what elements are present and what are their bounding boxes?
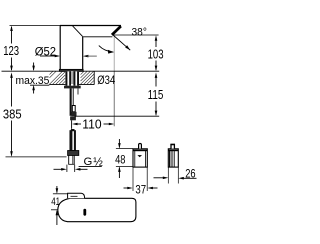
sensor window slanted edge xyxy=(112,26,121,35)
dimension 110 line xyxy=(72,123,114,126)
svg-text:37: 37 xyxy=(135,184,146,197)
deck hatch right part xyxy=(81,71,94,84)
faucet column right edge xyxy=(82,37,84,71)
pipe thin continuation xyxy=(71,120,73,129)
supply hose xyxy=(70,129,75,151)
angle 38 arc xyxy=(99,46,114,53)
pipe end below extension xyxy=(70,116,76,120)
dimension 103 line xyxy=(155,35,158,71)
spout module side view capsule xyxy=(58,198,136,221)
hose end nut xyxy=(68,151,79,156)
svg-text:115: 115 xyxy=(148,87,164,102)
control box front view xyxy=(133,144,147,168)
hose end extension line xyxy=(6,156,67,158)
angle 38 leg line xyxy=(113,35,131,51)
shank bottom extension line xyxy=(75,115,160,117)
svg-text:Ø52: Ø52 xyxy=(35,45,56,58)
control box side view xyxy=(168,144,178,167)
svg-text:Ø34: Ø34 xyxy=(97,73,115,87)
faucet base plate xyxy=(59,69,83,71)
svg-text:G: G xyxy=(84,156,93,168)
spout block inner line xyxy=(71,195,78,197)
threaded pipe below nut xyxy=(70,88,72,115)
angle 38 arc arrowhead xyxy=(108,50,114,54)
svg-text:½: ½ xyxy=(93,156,103,168)
svg-text:385: 385 xyxy=(3,107,22,122)
svg-text:123: 123 xyxy=(3,43,19,58)
deck hatch left part xyxy=(50,71,66,84)
dimension 37 xyxy=(124,187,158,190)
faucet head bottom edge xyxy=(83,36,113,38)
svg-text:103: 103 xyxy=(148,47,164,62)
dimension 123 line xyxy=(10,26,13,72)
dimension 385 line xyxy=(10,72,13,156)
G half thread tube xyxy=(68,156,74,165)
threaded shank through deck xyxy=(65,71,79,85)
angle 38 extension line xyxy=(112,34,158,36)
dimension 48 xyxy=(116,139,133,178)
control box front extension lines xyxy=(132,167,134,191)
svg-text:48: 48 xyxy=(115,153,125,166)
faucet body top edge xyxy=(60,25,121,27)
deck hole right edge xyxy=(93,71,95,84)
svg-text:110: 110 xyxy=(82,117,101,131)
faucet body left edge xyxy=(59,26,61,72)
side fitting on pipe xyxy=(72,106,75,112)
svg-text:38°: 38° xyxy=(132,26,147,38)
deck top surface line xyxy=(2,70,160,72)
dimension max35 arrows xyxy=(30,63,49,94)
angle 38 leg arrowhead xyxy=(125,45,130,50)
deck bottom line xyxy=(49,84,94,86)
shank mounting nut xyxy=(64,86,81,89)
svg-text:41: 41 xyxy=(51,196,60,208)
dimension 26 xyxy=(154,177,197,180)
faucet head inner diagonal xyxy=(73,26,83,37)
faucet top extension line xyxy=(10,25,61,27)
svg-text:26: 26 xyxy=(185,166,196,180)
spout mounting block xyxy=(68,193,85,198)
spout outlet slot xyxy=(83,209,86,216)
dimension 115 line xyxy=(155,72,158,116)
sensor vertex projection line xyxy=(113,36,115,72)
svg-text:max.35: max.35 xyxy=(16,75,50,87)
dimension 41 xyxy=(51,186,68,225)
control box side extension lines xyxy=(167,167,169,183)
G half label arrows xyxy=(54,165,102,172)
pipe lower dark piece xyxy=(71,112,76,116)
dimension 52 arrows xyxy=(40,55,97,58)
